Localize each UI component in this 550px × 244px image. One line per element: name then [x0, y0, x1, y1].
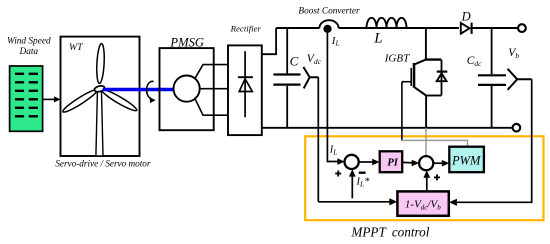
block 1-Vdc/Vb [397, 191, 448, 215]
svg-text:Vdc: Vdc [307, 53, 322, 66]
svg-text:C: C [290, 53, 299, 68]
inductor L [367, 18, 407, 28]
wind speed data block [10, 66, 43, 131]
gray wire gate link [402, 140, 468, 146]
wind turbine blade right [100, 87, 138, 113]
wire bottom rail [262, 127, 513, 129]
block PMSG [160, 48, 214, 130]
wind turbine blade left [61, 87, 99, 114]
terminal bottom [513, 124, 521, 132]
arrow IL* into junction1 [349, 169, 356, 198]
block Rectifier [228, 45, 262, 135]
diode D [461, 23, 472, 34]
probe V_b [508, 69, 532, 90]
svg-text:IL: IL [331, 35, 340, 48]
wire 3-phase mid [200, 88, 228, 90]
svg-text:L: L [373, 31, 382, 47]
svg-text:IL*: IL* [356, 177, 371, 189]
capacitor C_dc [478, 28, 506, 128]
wire Vdc sense down [317, 77, 319, 202]
wire Vb sense down [453, 79, 532, 202]
arrow Vdc into block [318, 198, 397, 205]
wind turbine hub [94, 85, 105, 93]
block WT [61, 37, 140, 156]
diode IGBT freewheel [437, 60, 448, 96]
wind turbine tower [96, 92, 103, 157]
wire 3-phase top [195, 65, 228, 78]
block PI [380, 151, 403, 172]
wire 3-phase bottom [195, 99, 228, 115]
arrow block to junction2 [423, 170, 430, 191]
svg-text:Servo-drive / Servo motor: Servo-drive / Servo motor [55, 159, 151, 169]
node IL dot [323, 25, 331, 33]
diode rectifier [238, 51, 253, 117]
wire rectifier top jog [262, 28, 277, 54]
summing junction 2 [419, 156, 433, 170]
plus sign junction1 [335, 171, 341, 177]
arrow junction2 to PWM [433, 160, 449, 167]
terminal top [518, 24, 526, 32]
block PWM [449, 147, 484, 173]
svg-text:Wind Speed: Wind Speed [7, 37, 51, 47]
svg-text:WT: WT [69, 42, 83, 53]
shaft (blue) [103, 88, 175, 91]
svg-text:IGBT: IGBT [384, 52, 410, 64]
svg-text:Vb: Vb [508, 47, 519, 60]
wind turbine blade top [96, 43, 105, 83]
arrow PI to junction2 [402, 160, 419, 167]
gray wire rail to junction2 [425, 128, 427, 156]
svg-text:MPPT control: MPPT control [350, 225, 429, 240]
summing junction 1 [345, 155, 359, 169]
arrow wind data to WT [43, 96, 61, 102]
svg-text:IL: IL [329, 145, 338, 157]
wire gate down [401, 82, 403, 141]
arrow Vb into block [449, 199, 457, 206]
svg-text:Rectifier: Rectifier [230, 23, 262, 33]
wire top rail [276, 27, 518, 29]
label Wind Speed Data [7, 37, 51, 57]
probe V_dc [303, 67, 318, 88]
plus sign junction2 [434, 174, 440, 180]
svg-text:PWM: PWM [451, 153, 481, 167]
svg-text:Boost Converter: Boost Converter [298, 7, 360, 17]
svg-text:Data: Data [18, 47, 38, 57]
transistor IGBT [402, 28, 441, 128]
arrow junction1 to PI [359, 159, 380, 166]
node IL hop [319, 20, 338, 28]
generator circle [174, 76, 200, 102]
svg-text:PMSG: PMSG [169, 35, 204, 49]
capacitor C [273, 28, 300, 128]
svg-text:D: D [461, 10, 471, 24]
minus sign junction1 [359, 172, 366, 174]
MPPT control box (orange) [305, 136, 543, 220]
wire IL sense down [327, 33, 341, 162]
rotation arrow [147, 81, 156, 103]
svg-text:Cdc: Cdc [467, 55, 482, 68]
arrow IL into junction1 [337, 158, 344, 165]
svg-text:PI: PI [387, 157, 399, 169]
